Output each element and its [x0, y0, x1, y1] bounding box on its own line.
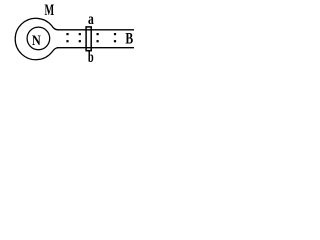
rod ab (rectangle outline over rails) [86, 27, 91, 51]
wire: top rail [57, 29, 134, 31]
wire: bottom rail [57, 47, 134, 49]
motor inner circle [27, 27, 50, 50]
svg-text:a: a [88, 11, 94, 28]
svg-text:M: M [45, 2, 55, 19]
svg-text:b: b [88, 49, 94, 66]
field dot row top [66, 33, 116, 35]
field dot row bottom [66, 40, 116, 42]
svg-text:N: N [32, 33, 41, 49]
circuit schematic: motor M on rails with rod ab in field B [0, 0, 172, 70]
svg-text:B: B [125, 31, 133, 48]
motor M outer balloon outline merging into rails [15, 18, 58, 59]
